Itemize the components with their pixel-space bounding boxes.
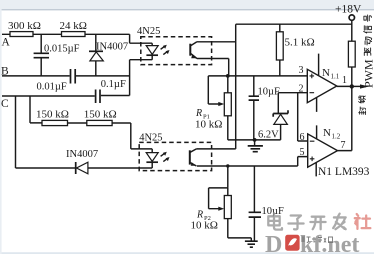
svg-text:B: B bbox=[1, 66, 9, 78]
svg-text:N1 LM393: N1 LM393 bbox=[318, 166, 370, 178]
svg-text:A: A bbox=[2, 37, 11, 49]
svg-text:kf.net: kf.net bbox=[300, 232, 359, 254]
svg-text:R: R bbox=[195, 108, 202, 119]
svg-text:IN4007: IN4007 bbox=[66, 149, 98, 160]
svg-text:0.1µF: 0.1µF bbox=[101, 79, 126, 90]
svg-text:N: N bbox=[323, 127, 331, 139]
svg-text:2: 2 bbox=[299, 84, 304, 95]
svg-text:1.1: 1.1 bbox=[331, 73, 340, 81]
svg-text:C: C bbox=[1, 98, 9, 110]
svg-text:1.2: 1.2 bbox=[332, 133, 341, 141]
svg-text:10µF: 10µF bbox=[258, 87, 281, 98]
svg-text:4N25: 4N25 bbox=[139, 133, 162, 144]
svg-text:7: 7 bbox=[341, 140, 346, 151]
svg-text:1: 1 bbox=[342, 75, 347, 86]
svg-text:150 kΩ: 150 kΩ bbox=[36, 109, 69, 121]
svg-text:4N25: 4N25 bbox=[137, 26, 160, 37]
svg-text:+18V: +18V bbox=[335, 4, 362, 16]
svg-text:0.01µF: 0.01µF bbox=[37, 82, 67, 93]
svg-text:10 kΩ: 10 kΩ bbox=[195, 119, 222, 131]
svg-text:300 kΩ: 300 kΩ bbox=[8, 20, 41, 32]
svg-text:PWM: PWM bbox=[362, 59, 374, 88]
svg-text:24 kΩ: 24 kΩ bbox=[60, 20, 87, 32]
svg-text:5: 5 bbox=[300, 147, 305, 158]
svg-text:5.1 kΩ: 5.1 kΩ bbox=[285, 37, 315, 49]
svg-text:10 kΩ: 10 kΩ bbox=[191, 220, 218, 232]
svg-text:0.015µF: 0.015µF bbox=[44, 44, 80, 55]
svg-text:6: 6 bbox=[300, 132, 305, 143]
svg-text:N: N bbox=[322, 67, 330, 79]
svg-text:6.2V: 6.2V bbox=[258, 130, 279, 141]
svg-text:D: D bbox=[265, 232, 282, 254]
svg-text:IN4007: IN4007 bbox=[96, 42, 128, 53]
svg-text:150 kΩ: 150 kΩ bbox=[84, 109, 117, 121]
svg-text:3: 3 bbox=[299, 65, 304, 76]
